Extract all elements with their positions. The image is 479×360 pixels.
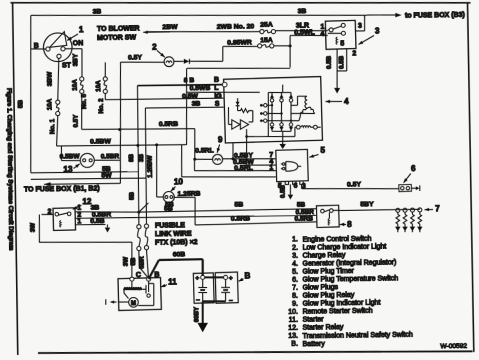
svg-text:3LR: 3LR [296,22,309,29]
svg-text:4: 4 [344,97,349,106]
svg-text:0.5B: 0.5B [326,55,333,69]
svg-text:8B: 8B [128,153,135,162]
svg-text:5: 5 [340,41,344,48]
svg-text:B: B [214,77,219,84]
svg-text:3.: 3. [292,252,298,259]
svg-text:+: + [195,275,199,282]
svg-text:+: + [229,275,233,282]
svg-text:Battery: Battery [303,341,326,348]
svg-text:6.: 6. [292,277,298,284]
svg-text:1: 1 [77,218,81,225]
svg-text:FTX (10B) ×2: FTX (10B) ×2 [155,239,198,247]
svg-text:9.: 9. [292,301,298,308]
svg-text:0.5B: 0.5B [90,218,105,225]
svg-text:No. 5: No. 5 [81,93,88,109]
svg-text:13.: 13. [288,333,298,340]
svg-text:2WB No. 20: 2WB No. 20 [217,23,255,31]
svg-text:5B: 5B [297,201,306,208]
svg-text:5: 5 [320,146,325,155]
svg-text:5B: 5B [130,257,137,266]
svg-text:0.5BR: 0.5BR [101,153,120,160]
svg-text:0.5Y: 0.5Y [128,54,143,61]
svg-text:B: B [154,270,159,279]
svg-text:0.5WL: 0.5WL [294,29,315,36]
svg-text:0.5W: 0.5W [182,93,199,100]
svg-text:C: C [136,270,141,279]
svg-text:10A: 10A [71,79,78,91]
svg-text:0.5Y: 0.5Y [347,181,362,188]
svg-text:3B: 3B [93,8,102,15]
svg-text:2: 2 [152,43,157,52]
svg-text:7.: 7. [292,285,298,292]
svg-text:60BY: 60BY [193,306,200,322]
svg-text:0.5RB: 0.5RB [159,121,178,128]
svg-text:5W: 5W [101,172,112,179]
svg-text:1.: 1. [292,236,298,243]
svg-text:1: 1 [269,165,273,172]
svg-text:8: 8 [347,220,352,229]
svg-text:3B: 3B [192,101,201,108]
svg-text:2.: 2. [292,244,298,251]
svg-text:60B: 60B [173,251,186,258]
svg-text:0.5BW: 0.5BW [60,153,81,160]
svg-text:5BY: 5BY [360,201,374,208]
svg-text:−: − [196,297,200,304]
svg-text:11: 11 [168,277,177,286]
svg-text:0.85WR: 0.85WR [227,39,252,46]
svg-text:1: 1 [320,24,324,31]
svg-text:ON: ON [73,40,84,47]
svg-text:LINK WIRE: LINK WIRE [155,231,192,239]
svg-text:3: 3 [375,27,380,36]
svg-text:B: B [34,43,39,50]
svg-text:3B: 3B [298,8,307,15]
svg-text:to FUSE BOX (B3): to FUSE BOX (B3) [405,12,465,20]
svg-text:10.: 10. [288,309,298,316]
svg-text:8.: 8. [292,293,298,300]
svg-text:No. 1: No. 1 [49,118,56,134]
svg-text:MOTOR SW: MOTOR SW [97,35,137,43]
svg-text:3BY: 3BY [72,53,79,66]
svg-text:6: 6 [411,164,416,173]
svg-text:Starter Relay: Starter Relay [303,324,344,332]
svg-text:IG: IG [214,93,222,100]
svg-text:5B: 5B [128,191,135,200]
svg-text:15A: 15A [260,37,273,44]
svg-text:FUSIBLE: FUSIBLE [155,222,185,229]
svg-text:10A: 10A [95,80,102,92]
svg-text:2BW: 2BW [162,24,178,31]
svg-text:Engine Control Switch: Engine Control Switch [303,235,372,243]
svg-text:Charge Relay: Charge Relay [303,252,346,260]
svg-text:Low Charge Indicator Light: Low Charge Indicator Light [303,243,387,251]
svg-text:Glow Plug Timer: Glow Plug Timer [303,268,355,276]
svg-text:0.5RB: 0.5RB [231,215,250,222]
svg-text:Glow Plug Temperature Switch: Glow Plug Temperature Switch [303,275,399,283]
svg-text:0.5WB: 0.5WB [190,85,211,92]
svg-text:0.5Y: 0.5Y [73,114,80,128]
svg-text:B.: B. [291,341,298,348]
svg-text:ST: ST [62,62,72,69]
svg-text:11.: 11. [289,317,298,324]
svg-text:5B: 5B [17,100,24,109]
svg-text:Glow Plugs: Glow Plugs [303,284,339,292]
svg-text:M: M [131,301,136,307]
svg-text:Glow Plug Indicator Light: Glow Plug Indicator Light [303,300,381,308]
svg-text:W-00592: W-00592 [440,343,467,350]
svg-text:0.5B: 0.5B [280,184,287,198]
svg-text:8 B: 8 B [184,77,195,84]
svg-text:0.5RL: 0.5RL [195,147,214,154]
svg-text:10A: 10A [46,98,53,110]
svg-text:2: 2 [352,50,356,57]
svg-text:0.5BW: 0.5BW [90,138,111,145]
svg-text:3W: 3W [30,223,37,233]
svg-text:5BR: 5BR [139,256,146,269]
svg-text:3B: 3B [138,153,145,162]
svg-text:Starter: Starter [303,317,325,324]
svg-text:3BW: 3BW [47,71,54,86]
svg-text:1.25BW: 1.25BW [147,155,154,178]
svg-text:S: S [215,101,220,108]
svg-text:TO BLOWER: TO BLOWER [97,26,140,34]
svg-text:12.: 12. [288,325,298,332]
svg-text:1: 1 [79,25,84,34]
svg-text:No. 2: No. 2 [98,98,105,114]
svg-text:5.: 5. [292,269,298,276]
svg-text:TO FUSE BOX (B1, B2): TO FUSE BOX (B1, B2) [24,185,100,193]
svg-text:4.: 4. [292,261,298,268]
svg-text:10: 10 [174,177,184,186]
svg-text:3: 3 [358,23,362,30]
svg-text:Remote Starter Switch: Remote Starter Switch [303,308,373,316]
svg-text:6: 6 [294,183,298,190]
svg-text:0.5RL: 0.5RL [234,165,253,172]
svg-text:1.25RB: 1.25RB [177,191,200,198]
svg-text:B: B [244,271,250,280]
svg-text:0.5B: 0.5B [339,55,346,69]
svg-text:3W: 3W [123,257,130,267]
svg-text:Generator (Integral Regulator): Generator (Integral Regulator) [303,259,397,267]
svg-text:9: 9 [218,135,223,144]
svg-text:7: 7 [435,204,440,213]
svg-text:4: 4 [320,31,324,38]
svg-text:Glow Plug Relay: Glow Plug Relay [303,292,355,300]
svg-text:−: − [229,297,233,304]
svg-text:5B: 5B [164,205,173,212]
svg-text:0.5RB: 0.5RB [294,216,313,223]
svg-text:5B: 5B [234,202,243,209]
svg-text:25A: 25A [260,21,273,28]
